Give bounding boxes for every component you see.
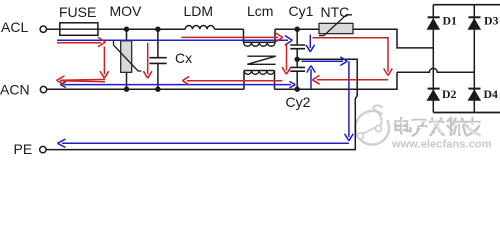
svg-text:Lcm: Lcm bbox=[247, 3, 273, 19]
svg-text:MOV: MOV bbox=[110, 3, 143, 19]
svg-text:PE: PE bbox=[14, 141, 33, 157]
svg-text:Cy1: Cy1 bbox=[289, 3, 314, 19]
svg-text:D1: D1 bbox=[443, 14, 458, 28]
svg-text:www.elecfans.com: www.elecfans.com bbox=[391, 138, 492, 150]
svg-text:ACL: ACL bbox=[1, 19, 28, 35]
svg-text:NTC: NTC bbox=[321, 4, 350, 20]
svg-text:D3: D3 bbox=[484, 14, 499, 28]
svg-text:D2: D2 bbox=[442, 87, 457, 101]
svg-text:ACN: ACN bbox=[0, 82, 30, 98]
svg-text:D4: D4 bbox=[484, 87, 499, 101]
svg-text:Cy2: Cy2 bbox=[286, 94, 311, 110]
svg-text:FUSE: FUSE bbox=[59, 4, 96, 20]
svg-text:Cx: Cx bbox=[175, 50, 192, 66]
svg-text:LDM: LDM bbox=[184, 3, 214, 19]
